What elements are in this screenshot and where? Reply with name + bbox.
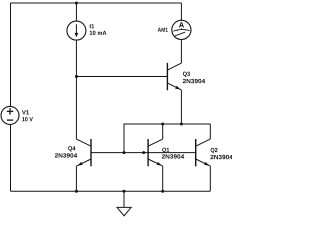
wire top rail — [11, 2, 182, 4]
wire I1 bottom to node — [75, 40, 77, 76]
label Q3 — [183, 72, 190, 77]
label Q4 — [68, 146, 75, 151]
wire base rail Q4 to Q2 — [91, 152, 196, 154]
transistor Q4 (NPN 2N3904, mirrored) — [76, 77, 91, 192]
wire I1 top stub — [75, 3, 77, 21]
label I1 — [90, 24, 94, 28]
node I1 / Q4 collector / Q3 base — [75, 75, 78, 78]
label Q2 — [211, 148, 218, 153]
label V1 value — [22, 117, 33, 121]
node base rail / mid-rail drop — [123, 151, 126, 154]
wire left branch down to V1 — [10, 3, 12, 106]
wire bottom rail — [11, 190, 211, 192]
node mid rail / Q1 collector — [161, 123, 164, 126]
wire Q3 base run — [76, 76, 167, 78]
label Q1 — [162, 148, 169, 153]
wire Q2 collector drop — [209, 124, 211, 139]
transistor Q2 (NPN 2N3904) — [196, 139, 211, 191]
node top rail / I1 — [75, 2, 78, 5]
label AM1 A glyph — [179, 22, 184, 27]
voltage source V1 — [1, 106, 19, 124]
wire AM1 top stub — [180, 3, 182, 20]
current source I1 — [67, 21, 86, 40]
ammeter AM1 — [172, 20, 191, 39]
wire V1 bottom to bottom rail — [10, 124, 12, 191]
wire mid rail with left drop to base rail — [124, 124, 210, 153]
node base rail / Q1 base — [142, 151, 145, 154]
node bottom rail / ground — [123, 190, 126, 193]
label AM1 — [158, 28, 168, 32]
ground — [123, 191, 125, 207]
label I1 value — [90, 31, 107, 35]
label Q1 type — [162, 154, 184, 158]
transistor Q3 (NPN 2N3904) — [167, 40, 181, 125]
node bottom rail / Q4 emitter — [75, 190, 78, 193]
node mid rail / Q3 emitter — [180, 123, 183, 126]
label Q2 type — [210, 155, 232, 159]
transistor Q1 (NPN 2N3904) — [148, 124, 163, 191]
label Q4 type — [55, 153, 77, 157]
label Q3 type — [183, 79, 205, 83]
node bottom rail / Q1 emitter — [161, 190, 164, 193]
label V1 — [22, 110, 29, 114]
